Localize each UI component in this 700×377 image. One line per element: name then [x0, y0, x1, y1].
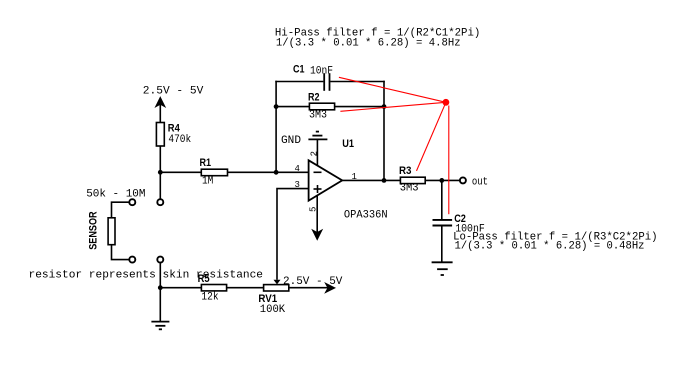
wire C2 down to ground: [441, 226, 443, 263]
capacitor C2: [433, 220, 453, 226]
junction R1 to feedback node: [274, 170, 279, 175]
resistor R4: [156, 123, 164, 147]
power arrow down below op-amp: [312, 230, 322, 240]
terminal circle bottom right of sensor gap: [157, 257, 163, 263]
wiper arrow of RV1: [274, 280, 281, 285]
ground symbol below C2: [432, 262, 453, 275]
wire R5 to RV1: [227, 287, 264, 289]
wire R2 rail right segment: [335, 106, 385, 108]
junction left R2 node: [274, 104, 279, 109]
wire input rail from R4 node to R1: [160, 171, 201, 173]
terminal circle top right of sensor gap: [157, 199, 163, 205]
terminal circle bottom of sensor: [129, 257, 135, 263]
svg-text:R2: R2: [308, 91, 320, 103]
ground symbol bottom left: [151, 322, 169, 330]
wire left vertical of feedback loop: [275, 81, 277, 173]
wire top feedback loop horizontal left of C1: [275, 81, 323, 83]
wire top feedback loop horizontal right of C1: [330, 81, 385, 83]
power arrow 2.5V - 5V right: [325, 283, 335, 292]
red annotation line to R2: [340, 102, 446, 111]
svg-text:100K: 100K: [260, 304, 286, 316]
svg-text:R5: R5: [198, 273, 210, 285]
svg-text:3M3: 3M3: [309, 109, 327, 121]
wire sensor bottom lead: [112, 245, 129, 260]
svg-text:470k: 470k: [168, 134, 191, 146]
resistor R3: [400, 177, 425, 183]
svg-text:OPA336N: OPA336N: [344, 210, 388, 222]
red annotation line to R3: [417, 102, 446, 171]
svg-text:1/(3.3 * 0.01 * 6.28) = 4.8Hz: 1/(3.3 * 0.01 * 6.28) = 4.8Hz: [276, 37, 461, 49]
svg-text:1/(3.3 * 0.01 * 6.28) = 0.48Hz: 1/(3.3 * 0.01 * 6.28) = 0.48Hz: [455, 240, 645, 252]
op-amp plus sign: [314, 185, 322, 193]
junction bottom rail node: [158, 285, 163, 290]
red annotation line to C1: [339, 77, 446, 102]
svg-text:1M: 1M: [202, 175, 213, 187]
wire op-amp pin 5 down to supply arrow: [316, 196, 318, 233]
svg-text:GND: GND: [281, 135, 301, 147]
terminal circle out: [460, 177, 466, 183]
wire R3 to out terminal: [425, 179, 459, 181]
resistor R2: [309, 103, 334, 110]
junction out node: [439, 178, 444, 183]
wire bottom rail to R5: [160, 287, 201, 289]
svg-text:50k - 10M: 50k - 10M: [86, 189, 145, 201]
resistor R1: [201, 169, 227, 176]
svg-text:R4: R4: [168, 123, 181, 135]
wire noninverting input from RV1 wiper: [277, 189, 309, 280]
svg-text:3: 3: [295, 180, 300, 190]
svg-text:2.5V - 5V: 2.5V - 5V: [143, 86, 204, 98]
wire R1 to inverting input: [228, 171, 309, 173]
wire RV1 to supply arrow: [289, 287, 328, 289]
ground symbol GND above op-amp (inverted): [308, 132, 327, 140]
capacitor C1: [324, 73, 329, 91]
svg-text:out: out: [472, 176, 488, 188]
svg-text:resistor represents skin resis: resistor represents skin resistance: [29, 269, 264, 281]
svg-text:10nF: 10nF: [310, 65, 333, 77]
junction right R2 node: [382, 104, 387, 109]
svg-text:3M3: 3M3: [400, 183, 419, 195]
svg-text:C1: C1: [293, 64, 305, 76]
junction R4-R1 node: [158, 170, 163, 175]
power arrow 2.5V - 5V above R4: [156, 97, 165, 122]
wire sensor terminal down to ground rail: [159, 263, 161, 288]
svg-text:R3: R3: [399, 165, 412, 177]
wire op-amp output to R3: [342, 179, 400, 181]
red annotation line to C2: [448, 106, 450, 215]
resistor R5: [201, 285, 226, 291]
svg-text:4: 4: [295, 164, 300, 174]
terminal circle top of sensor: [129, 199, 135, 205]
wire sensor top lead: [112, 202, 129, 218]
svg-text:SENSOR: SENSOR: [88, 211, 100, 249]
potentiometer RV1: [264, 285, 289, 291]
red annotation dot: [443, 99, 450, 106]
wire R4 node down to sensor terminal: [159, 172, 161, 198]
op-amp U1: [309, 160, 343, 200]
wire op-amp pin 2 up to GND bar: [316, 139, 318, 166]
svg-text:R1: R1: [200, 157, 212, 169]
svg-text:2.5V - 5V: 2.5V - 5V: [283, 276, 343, 288]
svg-text:12k: 12k: [201, 292, 219, 304]
junction output feedback node: [382, 178, 387, 183]
wire junction down to ground: [159, 288, 161, 322]
resistor SENSOR body: [108, 218, 115, 245]
wire R2 rail left segment: [275, 106, 309, 108]
wire right vertical of feedback loop: [383, 81, 385, 181]
svg-text:U1: U1: [342, 138, 354, 150]
op-amp minus sign: [314, 171, 322, 173]
wire out node down to C2: [441, 180, 443, 219]
wire R4 bottom to input rail: [159, 146, 161, 172]
